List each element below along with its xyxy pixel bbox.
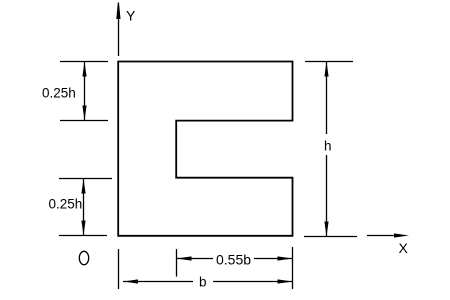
svg-text:b: b — [199, 275, 207, 290]
svg-text:h: h — [324, 139, 332, 154]
svg-text:X: X — [399, 240, 409, 256]
svg-text:0.25h: 0.25h — [42, 86, 76, 101]
svg-text:0.55b: 0.55b — [216, 252, 251, 268]
svg-text:0.25h: 0.25h — [49, 197, 83, 212]
svg-text:Y: Y — [126, 8, 136, 24]
